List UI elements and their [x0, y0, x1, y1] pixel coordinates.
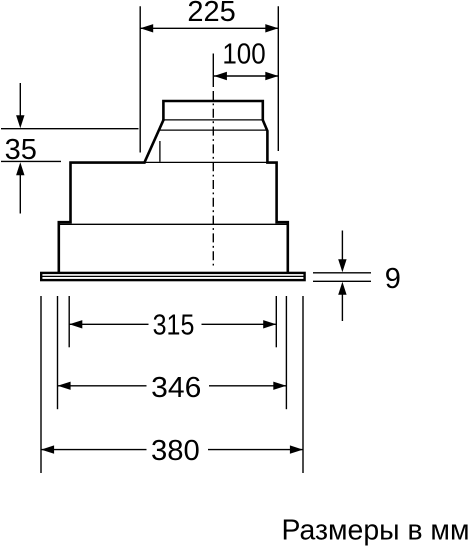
svg-text:315: 315	[153, 310, 195, 342]
svg-text:100: 100	[222, 39, 265, 71]
svg-text:35: 35	[5, 134, 37, 166]
svg-text:346: 346	[151, 372, 201, 404]
svg-text:Размеры в мм: Размеры в мм	[282, 515, 469, 547]
svg-text:225: 225	[187, 0, 235, 28]
svg-text:380: 380	[151, 435, 200, 467]
svg-text:9: 9	[385, 263, 401, 295]
